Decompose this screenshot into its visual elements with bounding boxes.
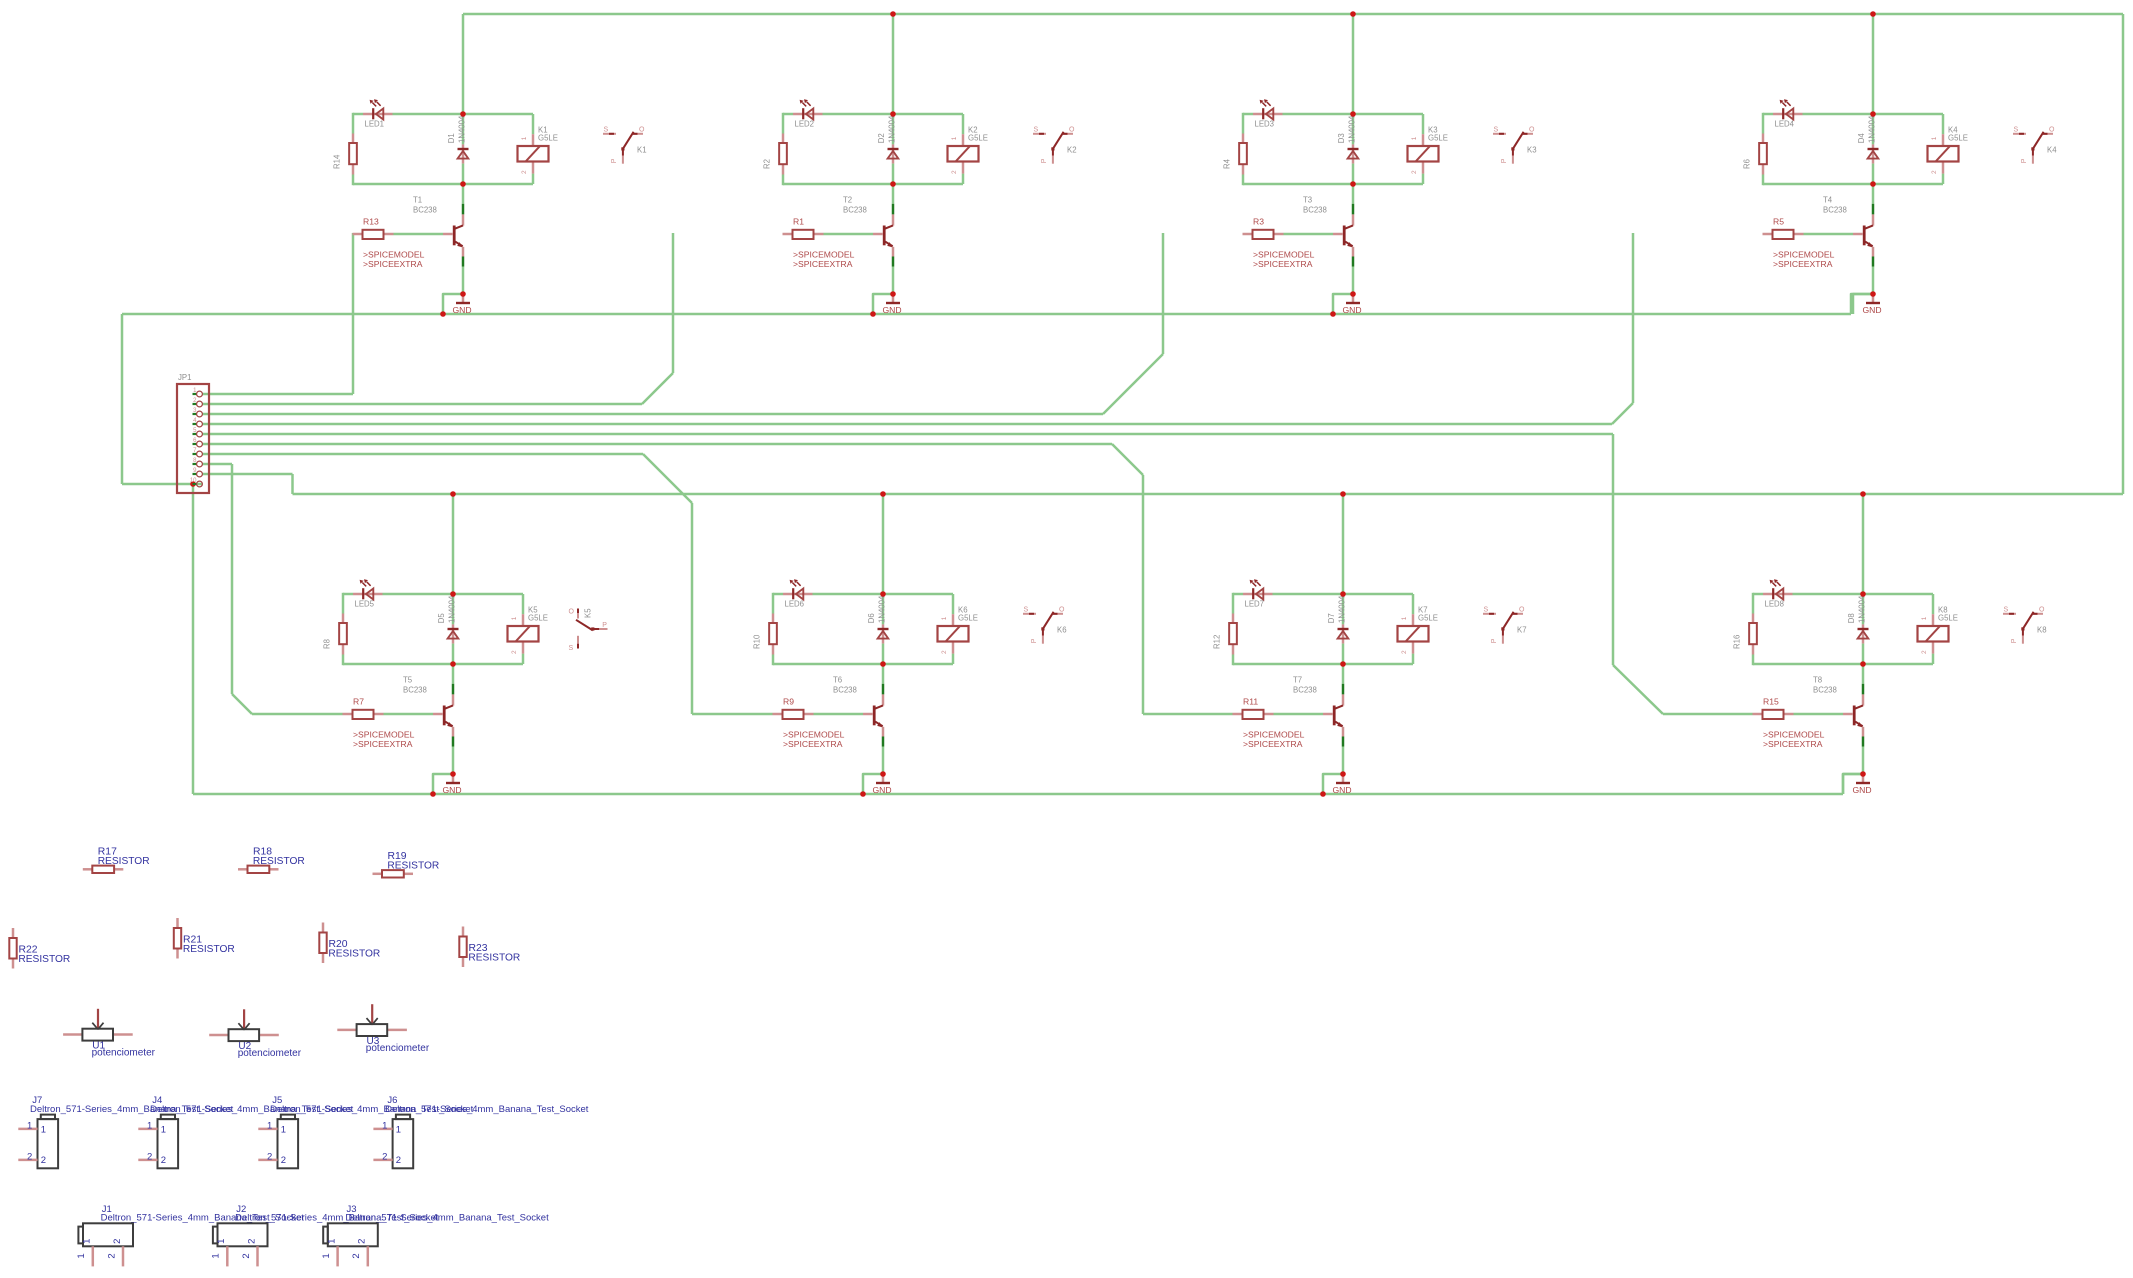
- wire relay column lower: [1932, 654, 1935, 664]
- junction loop bottom D2: [890, 181, 896, 187]
- junction loop bottom D7: [1340, 661, 1346, 667]
- wire loop bottom relay side: [883, 663, 953, 666]
- junction loop top D6: [880, 591, 886, 597]
- wire relay column upper: [952, 594, 955, 614]
- svg-text:2: 2: [41, 1155, 46, 1166]
- svg-text:RESISTOR: RESISTOR: [253, 856, 305, 867]
- svg-text:O: O: [1059, 607, 1065, 614]
- svg-text:1: 1: [1931, 136, 1938, 140]
- wire LED6 loop top right: [813, 593, 884, 596]
- wire loop left vertical upper: [1752, 593, 1755, 614]
- wire loop left vertical upper: [1242, 113, 1245, 134]
- svg-text:P: P: [2021, 158, 2028, 163]
- wire loop top to relay column: [1873, 113, 1943, 116]
- wire VCC drop to channel: [1862, 494, 1865, 595]
- resistor R12: [1232, 614, 1235, 624]
- svg-text:2: 2: [357, 1239, 368, 1244]
- junction GND rail lower: [1320, 791, 1326, 797]
- ground symbol: [1872, 294, 1875, 303]
- wire LED1 loop top left: [353, 113, 363, 116]
- svg-text:1: 1: [521, 136, 528, 140]
- wire JP1 pin5 to R15: [202, 433, 1613, 436]
- junction JP1 pin10: [190, 481, 196, 487]
- svg-text:JP1: JP1: [178, 373, 191, 382]
- wire JP1 pin8 to R7: [202, 463, 232, 466]
- wire VCC drop to channel: [1872, 14, 1875, 115]
- svg-text:D5: D5: [437, 613, 446, 624]
- junction loop top D5: [450, 591, 456, 597]
- pin 2 of J1: [122, 1246, 125, 1266]
- pin 2 of J5: [258, 1159, 277, 1162]
- wire LED2 loop top left: [783, 113, 793, 116]
- svg-text:>SPICEMODEL: >SPICEMODEL: [793, 249, 855, 259]
- wire JP1 pin9 corner down: [291, 474, 294, 494]
- svg-text:2: 2: [106, 1253, 117, 1258]
- svg-text:G5LE: G5LE: [528, 614, 548, 623]
- svg-text:BC238: BC238: [1303, 206, 1327, 215]
- svg-text:R1: R1: [793, 216, 804, 226]
- svg-text:P: P: [1041, 158, 1048, 163]
- wire loop left vertical lower: [1242, 175, 1245, 186]
- svg-text:>SPICEMODEL: >SPICEMODEL: [1243, 729, 1305, 739]
- svg-text:R6: R6: [1743, 159, 1752, 169]
- svg-text:D4: D4: [1857, 133, 1866, 144]
- svg-text:RESISTOR: RESISTOR: [468, 952, 520, 963]
- svg-text:2: 2: [1401, 650, 1408, 654]
- resistor R17: [83, 847, 150, 873]
- junction loop top D1: [460, 111, 466, 117]
- wire VCC drop to channel: [1342, 494, 1345, 595]
- svg-text:RESISTOR: RESISTOR: [18, 954, 70, 965]
- wire relay column upper: [522, 594, 525, 614]
- svg-text:>SPICEMODEL: >SPICEMODEL: [363, 249, 425, 259]
- wire ch4 GND step: [1851, 294, 1873, 314]
- banana socket J4: [138, 1095, 353, 1168]
- wire loop top to relay column: [453, 593, 523, 596]
- diode D8 1N4004: [1862, 594, 1865, 624]
- wire emitter to gnd rail step: [1333, 294, 1353, 314]
- svg-text:BC238: BC238: [1813, 686, 1837, 695]
- wire LED8 loop top left: [1753, 593, 1763, 596]
- svg-text:R5: R5: [1773, 216, 1784, 226]
- svg-text:G5LE: G5LE: [1418, 614, 1438, 623]
- wire emitter to gnd rail step: [433, 774, 453, 794]
- ground symbol: [452, 774, 455, 783]
- svg-text:O: O: [2049, 127, 2055, 134]
- svg-text:>SPICEMODEL: >SPICEMODEL: [783, 729, 845, 739]
- transistor T6 BC238: [882, 664, 885, 684]
- svg-text:1: 1: [951, 136, 958, 140]
- transistor T5 BC238: [452, 664, 455, 684]
- resistor R6: [1762, 134, 1765, 144]
- transistor T8 BC238: [1862, 664, 1865, 684]
- junction VCC bottom rail: [450, 491, 456, 497]
- wire loop bottom: [343, 663, 453, 666]
- svg-text:>SPICEMODEL: >SPICEMODEL: [1773, 249, 1835, 259]
- svg-text:R13: R13: [363, 216, 379, 226]
- pin 10 of JP1: [193, 483, 197, 485]
- transistor T1 BC238: [462, 184, 465, 204]
- svg-text:potenciometer: potenciometer: [366, 1043, 430, 1054]
- resistor R7: [343, 713, 353, 716]
- svg-text:1N4004: 1N4004: [458, 115, 467, 143]
- resistor R14: [352, 134, 355, 144]
- resistor R13: [353, 233, 363, 236]
- ground symbol: [882, 774, 885, 783]
- svg-text:Deltron_571-Series_4mm_Banana_: Deltron_571-Series_4mm_Banana_Test_Socke…: [345, 1213, 549, 1224]
- wire loop left vertical upper: [1762, 113, 1765, 134]
- pin 1 of JP1: [193, 393, 197, 395]
- svg-text:S: S: [569, 645, 574, 652]
- junction emitter: [1870, 291, 1876, 297]
- wire base resistor to transistor: [384, 713, 434, 716]
- resistor R23: [459, 927, 520, 968]
- wire GND rail lower: [193, 793, 1843, 796]
- svg-text:BC238: BC238: [843, 206, 867, 215]
- wire loop bottom: [1763, 183, 1873, 186]
- potentiometer U3: [337, 1004, 430, 1054]
- svg-text:2: 2: [147, 1151, 152, 1162]
- svg-text:BC238: BC238: [413, 206, 437, 215]
- svg-text:>SPICEEXTRA: >SPICEEXTRA: [1243, 739, 1303, 749]
- relay K8 G5LE coil: [1932, 614, 1935, 626]
- svg-text:D7: D7: [1327, 613, 1336, 623]
- svg-text:RESISTOR: RESISTOR: [183, 944, 235, 955]
- svg-text:G5LE: G5LE: [538, 134, 558, 143]
- pin 3 of JP1: [193, 413, 197, 415]
- wire LED3 loop top left: [1243, 113, 1253, 116]
- svg-text:GND: GND: [1333, 785, 1352, 795]
- svg-text:1: 1: [27, 1121, 32, 1132]
- wire relay column upper: [962, 114, 965, 134]
- junction loop bottom D5: [450, 661, 456, 667]
- svg-text:K3: K3: [1527, 146, 1537, 155]
- svg-text:O: O: [1069, 127, 1075, 134]
- relay contact K5 (rotated): [569, 609, 608, 652]
- resistor R15: [1753, 713, 1763, 716]
- LED LED3: [1253, 99, 1283, 119]
- LED LED4: [1773, 99, 1803, 119]
- svg-text:GND: GND: [1863, 305, 1882, 315]
- svg-text:R4: R4: [1223, 158, 1232, 169]
- svg-text:2: 2: [521, 170, 528, 174]
- wire loop left vertical lower: [1762, 175, 1765, 186]
- svg-text:1: 1: [321, 1253, 332, 1258]
- svg-text:1N4004: 1N4004: [448, 595, 457, 623]
- wire loop top to relay column: [463, 113, 533, 116]
- resistor R4: [1242, 134, 1245, 144]
- svg-text:potenciometer: potenciometer: [92, 1048, 156, 1059]
- junction GND rail upper: [440, 311, 446, 317]
- wire relay column upper: [532, 114, 535, 134]
- wire VCC drop to channel: [1352, 14, 1355, 115]
- relay K6 G5LE coil: [952, 614, 955, 626]
- relay contact K4: [2013, 127, 2055, 164]
- junction emitter: [1860, 771, 1866, 777]
- svg-text:2: 2: [161, 1155, 166, 1166]
- LED LED8: [1763, 579, 1793, 599]
- resistor R18: [238, 847, 305, 873]
- svg-text:LED1: LED1: [365, 120, 385, 129]
- svg-text:1N4004: 1N4004: [1348, 115, 1357, 143]
- svg-text:>SPICEMODEL: >SPICEMODEL: [353, 729, 415, 739]
- wire loop left vertical lower: [772, 655, 775, 666]
- wire loop bottom: [1243, 183, 1353, 186]
- svg-text:2: 2: [1921, 650, 1928, 654]
- svg-text:1: 1: [161, 1124, 166, 1135]
- wire JP1 pin4 to R5: [202, 423, 1612, 426]
- svg-text:K6: K6: [1057, 626, 1067, 635]
- wire loop bottom relay side: [1863, 663, 1933, 666]
- pin 1 of J7: [18, 1128, 37, 1131]
- svg-text:GND: GND: [443, 785, 462, 795]
- svg-text:LED8: LED8: [1765, 600, 1785, 609]
- pin 1 of J3: [336, 1246, 339, 1266]
- wire JP1 pin1 to R13: [202, 393, 353, 396]
- svg-text:S: S: [2014, 127, 2019, 134]
- svg-text:G5LE: G5LE: [1948, 134, 1968, 143]
- svg-text:T8: T8: [1813, 676, 1822, 685]
- svg-text:K7: K7: [1517, 626, 1527, 635]
- svg-text:1: 1: [216, 1239, 227, 1244]
- junction loop top D2: [890, 111, 896, 117]
- svg-text:K5: K5: [584, 608, 593, 618]
- junction GND rail lower: [430, 791, 436, 797]
- wire GND left drop: [121, 314, 124, 484]
- svg-text:1: 1: [511, 616, 518, 620]
- junction GND rail upper: [870, 311, 876, 317]
- svg-text:1: 1: [41, 1124, 46, 1135]
- wire loop left vertical lower: [352, 175, 355, 186]
- wire JP1 pin9 to VCC: [202, 473, 293, 476]
- svg-text:G5LE: G5LE: [958, 614, 978, 623]
- svg-text:P: P: [602, 622, 607, 629]
- svg-text:2: 2: [112, 1239, 123, 1244]
- svg-text:G5LE: G5LE: [1428, 134, 1448, 143]
- relay contact K8: [2003, 607, 2045, 644]
- svg-text:O: O: [639, 127, 645, 134]
- svg-text:K1: K1: [637, 146, 647, 155]
- wire loop bottom relay side: [463, 183, 533, 186]
- svg-text:2: 2: [281, 1155, 286, 1166]
- banana socket J2: [211, 1204, 439, 1267]
- svg-text:>SPICEMODEL: >SPICEMODEL: [1253, 249, 1315, 259]
- diode D3 1N4004: [1352, 114, 1355, 144]
- svg-text:RESISTOR: RESISTOR: [387, 860, 439, 871]
- diode D2 1N4004: [892, 114, 895, 144]
- svg-text:BC238: BC238: [403, 686, 427, 695]
- svg-text:1: 1: [1411, 136, 1418, 140]
- pin 5 of JP1: [193, 433, 197, 435]
- banana socket J7: [18, 1095, 233, 1168]
- svg-text:1: 1: [267, 1121, 272, 1132]
- svg-text:>SPICEEXTRA: >SPICEEXTRA: [793, 259, 853, 269]
- svg-text:R14: R14: [333, 154, 342, 169]
- svg-text:1: 1: [396, 1124, 401, 1135]
- svg-text:2: 2: [941, 650, 948, 654]
- svg-text:>SPICEEXTRA: >SPICEEXTRA: [1763, 739, 1823, 749]
- resistor R3: [1243, 233, 1253, 236]
- wire VCC right edge vertical: [2122, 14, 2125, 494]
- wire LED5 loop top left: [343, 593, 353, 596]
- svg-text:O: O: [1519, 607, 1525, 614]
- pin 1 of J6: [373, 1128, 392, 1131]
- relay contact K1: [603, 127, 645, 164]
- wire base resistor to transistor: [824, 233, 874, 236]
- svg-text:D8: D8: [1847, 613, 1856, 623]
- svg-text:R15: R15: [1763, 696, 1779, 706]
- junction emitter: [880, 771, 886, 777]
- wire loop bottom relay side: [453, 663, 523, 666]
- ground symbol: [462, 294, 465, 303]
- banana socket J3: [321, 1204, 549, 1267]
- svg-text:K4: K4: [2047, 146, 2057, 155]
- resistor R2: [782, 134, 785, 144]
- wire LED1 loop top right: [393, 113, 464, 116]
- svg-text:1N4004: 1N4004: [1868, 115, 1877, 143]
- svg-text:R12: R12: [1213, 635, 1222, 649]
- diode D1 1N4004: [462, 114, 465, 144]
- pin 8 of JP1: [193, 463, 197, 465]
- svg-text:potenciometer: potenciometer: [238, 1048, 302, 1059]
- svg-text:GND: GND: [1343, 305, 1362, 315]
- wire relay column lower: [952, 654, 955, 664]
- diode D4 1N4004: [1872, 114, 1875, 144]
- wire emitter to gnd rail step: [1853, 294, 1873, 314]
- junction VCC bottom rail: [1860, 491, 1866, 497]
- pin header JP1: [177, 373, 209, 493]
- wire JP1 pin3 to R3: [202, 413, 1103, 416]
- svg-text:2: 2: [246, 1239, 257, 1244]
- svg-text:S: S: [1024, 607, 1029, 614]
- svg-text:>SPICEEXTRA: >SPICEEXTRA: [783, 739, 843, 749]
- junction VCC top rail: [890, 11, 896, 17]
- svg-text:R16: R16: [1733, 635, 1742, 649]
- wire relay column lower: [1942, 174, 1945, 184]
- svg-text:>SPICEEXTRA: >SPICEEXTRA: [1773, 259, 1833, 269]
- junction emitter: [1350, 291, 1356, 297]
- svg-text:R9: R9: [783, 696, 794, 706]
- pin 6 of JP1: [193, 443, 197, 445]
- svg-text:2: 2: [267, 1151, 272, 1162]
- wire loop top to relay column: [893, 113, 963, 116]
- svg-text:1: 1: [941, 616, 948, 620]
- banana socket J6: [373, 1095, 588, 1168]
- svg-text:RESISTOR: RESISTOR: [328, 948, 380, 959]
- wire emitter to gnd rail step: [443, 294, 463, 314]
- pin 7 of JP1: [193, 453, 197, 455]
- wire VCC drop to channel: [452, 494, 455, 595]
- wire LED3 loop top right: [1283, 113, 1354, 116]
- svg-text:P: P: [1031, 638, 1038, 643]
- svg-text:P: P: [2011, 638, 2018, 643]
- wire loop bottom: [783, 183, 893, 186]
- svg-text:1N4004: 1N4004: [1858, 595, 1867, 623]
- pin 2 of JP1: [193, 403, 197, 405]
- pin 1 of J5: [258, 1128, 277, 1131]
- svg-text:2: 2: [951, 170, 958, 174]
- wire loop bottom relay side: [1873, 183, 1943, 186]
- wire base resistor to transistor: [394, 233, 444, 236]
- resistor R16: [1752, 614, 1755, 624]
- wire relay column upper: [1942, 114, 1945, 134]
- wire VCC drop to channel: [882, 494, 885, 595]
- junction VCC bottom rail: [1340, 491, 1346, 497]
- wire loop left vertical upper: [1232, 593, 1235, 614]
- wire VCC top rail: [463, 13, 2123, 16]
- wire emitter to gnd rail step: [863, 774, 883, 794]
- LED LED6: [783, 579, 813, 599]
- wire loop bottom relay side: [1353, 183, 1423, 186]
- svg-text:1: 1: [147, 1121, 152, 1132]
- junction emitter: [450, 771, 456, 777]
- svg-text:K2: K2: [1067, 146, 1077, 155]
- relay K1 G5LE coil: [532, 134, 535, 146]
- relay K7 G5LE coil: [1412, 614, 1415, 626]
- wire loop left vertical upper: [782, 113, 785, 134]
- pin 2 of J4: [138, 1159, 157, 1162]
- junction emitter: [890, 291, 896, 297]
- svg-text:2: 2: [511, 650, 518, 654]
- relay contact K7: [1483, 607, 1525, 644]
- wire base resistor to transistor: [1284, 233, 1334, 236]
- wire loop top to relay column: [1343, 593, 1413, 596]
- wire loop left vertical upper: [352, 113, 355, 134]
- pin 2 of J3: [367, 1246, 370, 1266]
- svg-text:1: 1: [76, 1253, 87, 1258]
- wire GND to JP1 pin10: [122, 483, 202, 486]
- transistor T2 BC238: [892, 184, 895, 204]
- LED LED5: [353, 579, 383, 599]
- resistor R19: [373, 851, 440, 877]
- relay contact K3: [1493, 127, 1535, 164]
- junction loop top D3: [1350, 111, 1356, 117]
- wire ch8 GND step: [1843, 774, 1863, 794]
- svg-text:T2: T2: [843, 196, 852, 205]
- svg-text:S: S: [2004, 607, 2009, 614]
- wire emitter to gnd rail step: [1323, 774, 1343, 794]
- junction GND rail upper: [1330, 311, 1336, 317]
- relay K3 G5LE coil: [1422, 134, 1425, 146]
- wire loop left vertical lower: [342, 655, 345, 666]
- svg-text:T6: T6: [833, 676, 842, 685]
- svg-text:Deltron_571-Series_4mm_Banana_: Deltron_571-Series_4mm_Banana_Test_Socke…: [385, 1104, 589, 1115]
- svg-text:P: P: [1491, 638, 1498, 643]
- svg-text:LED2: LED2: [795, 120, 815, 129]
- wire JP1 pin10 drop: [192, 484, 195, 794]
- wire LED7 loop top right: [1273, 593, 1344, 596]
- wire relay column upper: [1932, 594, 1935, 614]
- pin 2 of J7: [18, 1159, 37, 1162]
- wire base resistor to transistor: [1794, 713, 1844, 716]
- diode D5 1N4004: [452, 594, 455, 624]
- svg-text:>SPICEEXTRA: >SPICEEXTRA: [363, 259, 423, 269]
- wire VCC bottom rail: [293, 493, 2124, 496]
- ground symbol: [1342, 774, 1345, 783]
- svg-text:1N4004: 1N4004: [878, 595, 887, 623]
- resistor R10: [772, 614, 775, 624]
- wire LED8 loop top right: [1793, 593, 1864, 596]
- wire LED4 loop top left: [1763, 113, 1773, 116]
- resistor R20: [319, 923, 380, 964]
- wire relay column lower: [522, 654, 525, 664]
- wire relay column upper: [1412, 594, 1415, 614]
- LED LED7: [1243, 579, 1273, 599]
- svg-text:R2: R2: [763, 159, 772, 169]
- resistor R11: [1233, 713, 1243, 716]
- relay K5 G5LE coil: [522, 614, 525, 626]
- pin 4 of JP1: [193, 423, 197, 425]
